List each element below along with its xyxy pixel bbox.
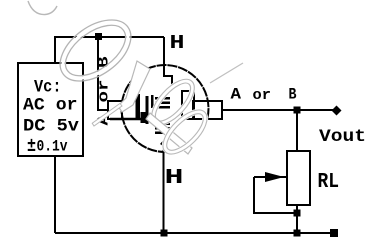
node output junction: [294, 107, 301, 114]
wire box bottom down: [54, 156, 56, 233]
pot wiper return wire: [254, 177, 297, 213]
lower angled mark: [160, 137, 169, 146]
hall element upper bars: [155, 97, 170, 100]
pot wiper arrow line: [254, 176, 286, 178]
voltage source box Vc: [18, 63, 83, 156]
chip lower-left block: [141, 112, 146, 123]
svg-text:AC or: AC or: [23, 96, 78, 116]
svg-text:DC 5v: DC 5v: [23, 117, 80, 137]
watermark corner arc: [28, 1, 57, 15]
chip second bar: [146, 96, 149, 124]
chip left bar: [136, 94, 141, 119]
resistor RL body: [287, 151, 310, 205]
svg-text:Vout: Vout: [319, 127, 366, 147]
svg-text:0.1v: 0.1v: [37, 138, 69, 156]
watermark swash tail thin: [92, 103, 122, 126]
svg-text:RL: RL: [318, 170, 340, 194]
watermark swash upper-right thin line: [210, 63, 243, 83]
wire RL bottom to rail: [296, 205, 298, 233]
wire junction down to left tab: [98, 37, 108, 110]
node rail junction RL: [294, 230, 301, 237]
watermark letter loop 2: [156, 103, 215, 162]
svg-text:±: ±: [27, 135, 36, 157]
watermark letter loop 1: [144, 72, 202, 132]
hook mark: [166, 135, 172, 139]
wire top lead into can: [164, 37, 172, 88]
wire bottom lead H: [163, 146, 165, 233]
svg-text:or: or: [253, 87, 272, 104]
hall element lower bars: [155, 123, 170, 126]
output end diamond: [332, 106, 342, 116]
chip right rectangle: [182, 91, 194, 119]
svg-text:Vc:: Vc:: [34, 78, 62, 98]
rail end diamond: [330, 229, 338, 237]
tab bottom extension line: [110, 118, 147, 121]
right tab: [193, 101, 222, 119]
chip center line: [151, 95, 154, 108]
watermark letter stem 2: [146, 113, 192, 154]
svg-text:H: H: [170, 32, 185, 54]
node junction top: [95, 33, 102, 40]
transistor can circle: [122, 65, 209, 152]
watermark double ellipse: [49, 8, 142, 94]
wire junction to RL: [296, 110, 298, 151]
node rail junction H lead: [161, 230, 168, 237]
svg-text:H: H: [165, 167, 184, 190]
svg-text:A: A: [231, 86, 242, 104]
watermark letter stem 1: [118, 61, 150, 112]
left tab: [108, 101, 122, 119]
pot wiper arrowhead: [265, 172, 284, 182]
svg-text:B: B: [289, 86, 297, 104]
wire box top to rail: [55, 37, 164, 63]
node wiper junction: [294, 210, 301, 217]
ground rail bottom: [55, 232, 334, 234]
wire right tab to output: [222, 109, 333, 111]
